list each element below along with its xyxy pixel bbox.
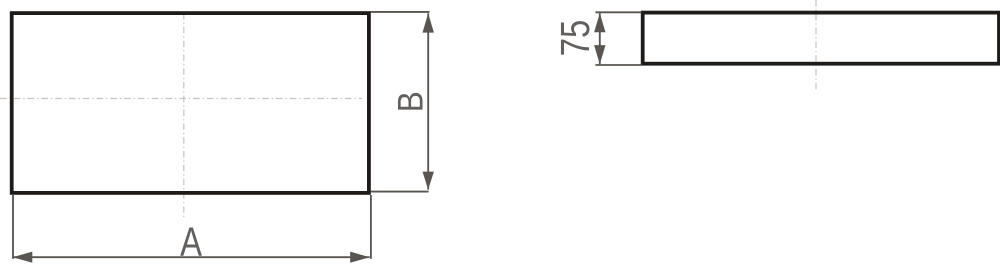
arrowhead B top — [423, 13, 434, 32]
extension line 75 top — [595, 11, 641, 13]
centerline horizontal (front view) — [0, 98, 362, 100]
svg-text:75: 75 — [553, 20, 598, 56]
dimension line A — [13, 256, 370, 258]
arrowhead 75 bottom — [594, 45, 605, 64]
arrowhead B bottom — [423, 172, 434, 190]
dimension line 75 — [599, 13, 601, 64]
arrowhead A right — [350, 252, 369, 263]
extension line A right — [370, 195, 372, 259]
svg-text:A: A — [180, 218, 202, 264]
plate front view outline — [12, 13, 369, 193]
extension line 75 bottom — [595, 64, 641, 66]
svg-text:B: B — [392, 91, 431, 112]
centerline vertical (side view) — [815, 0, 817, 91]
centerline vertical (front view) — [183, 13, 185, 220]
extension line B top — [371, 11, 430, 13]
dimension line B — [427, 13, 429, 189]
arrowhead 75 top — [594, 13, 605, 32]
extension line A left — [12, 195, 14, 259]
plate side view outline — [643, 13, 999, 64]
extension line B bottom — [371, 191, 429, 193]
arrowhead A left — [13, 252, 33, 263]
